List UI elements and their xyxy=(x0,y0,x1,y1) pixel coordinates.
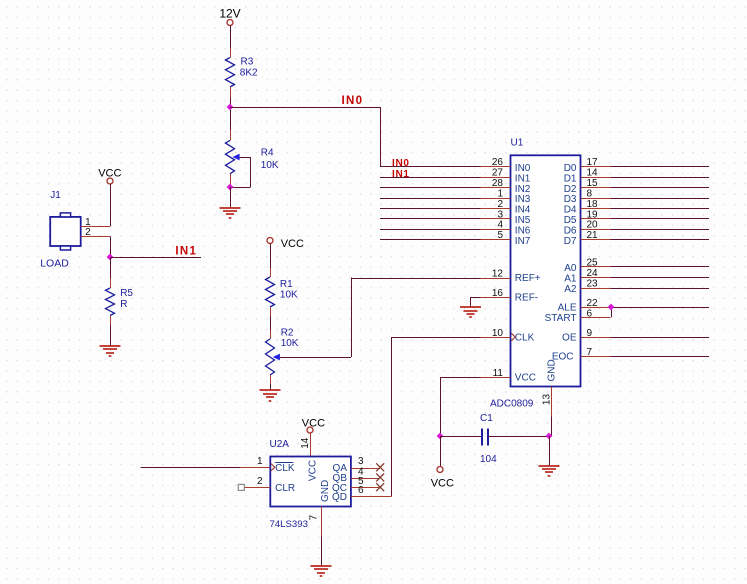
wire VCC to J1 pin1 xyxy=(110,184,112,226)
svg-text:IN1: IN1 xyxy=(515,173,531,184)
label U1 xyxy=(511,138,524,149)
pin number 14 U2A xyxy=(300,437,311,449)
pin 23 A2 of U1 xyxy=(581,288,710,290)
pin 12 REF+ of U1 xyxy=(481,278,511,280)
pin name VCC U1 xyxy=(515,373,536,384)
pin number 4 U2A xyxy=(358,466,364,477)
svg-text:25: 25 xyxy=(587,257,599,268)
svg-text:16: 16 xyxy=(492,288,504,299)
value 10K R2 xyxy=(281,338,299,349)
power port VCC at U2A xyxy=(302,417,325,433)
pin 17 D0 of U1 xyxy=(581,166,710,168)
pin 14 D1 of U1 xyxy=(581,177,710,179)
wire START to ALE xyxy=(611,307,613,317)
pin 7 GND of U2A xyxy=(321,507,323,567)
pin name IN5 U1 xyxy=(515,215,531,226)
svg-text:18: 18 xyxy=(587,199,599,210)
pin 16 REF- of U1 xyxy=(471,297,511,299)
svg-text:GND: GND xyxy=(547,359,558,381)
pin number 5 U2A xyxy=(358,476,364,487)
svg-text:IN6: IN6 xyxy=(515,226,531,237)
pin name D3 U1 xyxy=(564,194,577,205)
no-connect X at QC xyxy=(376,483,384,491)
pin 5 QC of U2A xyxy=(351,487,379,489)
ground below R5 xyxy=(100,346,121,356)
wire 12V to R3 xyxy=(230,26,232,49)
pin name CLK U1 xyxy=(515,333,535,344)
pin number 10 U1 xyxy=(492,328,504,339)
svg-text:D0: D0 xyxy=(564,163,577,174)
pin 2 CLR of U2A xyxy=(238,484,270,490)
pin name QA U2A xyxy=(333,463,348,474)
pin number 17 U1 xyxy=(587,157,599,168)
svg-text:VCC: VCC xyxy=(307,460,318,481)
svg-text:IN3: IN3 xyxy=(515,194,531,205)
svg-text:VCC: VCC xyxy=(281,238,304,250)
pin name VCC U2A rotated xyxy=(307,460,318,481)
wire R4 wiper xyxy=(230,157,251,188)
pin name D1 U1 xyxy=(564,173,577,184)
resistor R3 xyxy=(226,48,235,98)
pin name QD U2A xyxy=(332,492,347,503)
IC U2A body xyxy=(270,457,351,507)
svg-text:CLK: CLK xyxy=(515,333,535,344)
wire REF- to ground xyxy=(470,297,472,307)
svg-text:7: 7 xyxy=(587,347,593,358)
pin number 25 U1 xyxy=(587,257,599,268)
pin 20 D6 of U1 xyxy=(581,229,710,231)
wire VCC to R1 xyxy=(270,244,272,278)
svg-text:24: 24 xyxy=(587,268,599,279)
svg-text:D3: D3 xyxy=(564,194,577,205)
svg-text:D4: D4 xyxy=(564,205,577,216)
ground at REF- xyxy=(460,307,481,317)
pin 11 VCC of U1 xyxy=(440,377,511,379)
svg-text:R3: R3 xyxy=(241,57,254,68)
pin name CLK U2A xyxy=(275,463,295,474)
pin 1 of J1 xyxy=(81,226,110,228)
junction R3-IN0 xyxy=(227,104,234,111)
label R1 xyxy=(280,279,293,290)
pin 6 START of U1 xyxy=(581,317,611,319)
pin number 26 U1 xyxy=(492,157,504,168)
pin name QB U2A xyxy=(333,473,348,484)
svg-text:U2A: U2A xyxy=(270,439,290,450)
svg-text:104: 104 xyxy=(480,454,497,465)
label J1 xyxy=(50,190,61,201)
pin number 22 U1 xyxy=(587,298,599,309)
svg-text:5: 5 xyxy=(497,230,503,241)
wire R2 to ground xyxy=(270,375,272,391)
svg-text:START: START xyxy=(545,313,577,324)
ground below U2A xyxy=(311,566,332,576)
pin number 27 U1 xyxy=(492,168,504,179)
wire R4 to ground xyxy=(230,187,232,208)
pin number 19 U1 xyxy=(587,209,599,220)
connector J1 xyxy=(50,213,80,250)
pin name IN1 U1 xyxy=(515,173,531,184)
svg-text:10K: 10K xyxy=(281,338,299,349)
svg-text:12: 12 xyxy=(492,269,504,280)
value 10K R1 xyxy=(280,290,298,301)
ground below R2 xyxy=(260,390,281,401)
pin number 20 U1 xyxy=(587,220,599,231)
pin number 23 U1 xyxy=(587,278,599,289)
pin number 2 J1 xyxy=(85,227,91,238)
svg-text:12V: 12V xyxy=(219,7,240,21)
pin number 15 U1 xyxy=(587,178,599,189)
svg-text:A1: A1 xyxy=(564,274,577,285)
svg-text:D6: D6 xyxy=(564,226,577,237)
pin name IN2 U1 xyxy=(515,184,531,195)
svg-text:C1: C1 xyxy=(480,413,493,424)
wire net IN0 xyxy=(230,107,481,167)
pin 5 IN7 of U1 xyxy=(380,239,511,241)
pin number 9 U1 xyxy=(587,328,593,339)
svg-text:7: 7 xyxy=(309,514,320,520)
pin 7 EOC of U1 xyxy=(581,356,710,358)
svg-text:REF-: REF- xyxy=(515,293,538,304)
wire C1 right to GND pin xyxy=(488,436,549,438)
pin 28 IN2 of U1 xyxy=(380,187,511,189)
potentiometer R4 xyxy=(226,140,240,187)
junction IN1 node xyxy=(107,254,114,261)
svg-text:OE: OE xyxy=(562,333,577,344)
pin number 3 U2A xyxy=(358,456,364,467)
svg-text:D7: D7 xyxy=(564,236,577,247)
pin 15 D2 of U1 xyxy=(581,187,710,189)
pin name QC U2A xyxy=(332,483,347,494)
pin name START U1 xyxy=(545,313,577,324)
pin 19 D5 of U1 xyxy=(581,218,710,220)
svg-text:R1: R1 xyxy=(280,279,293,290)
svg-text:D1: D1 xyxy=(564,173,577,184)
svg-text:6: 6 xyxy=(587,308,593,319)
svg-text:10K: 10K xyxy=(280,290,298,301)
power port VCC at R1 xyxy=(267,238,304,251)
svg-text:CLK: CLK xyxy=(275,463,295,474)
pin 14 VCC of U2A xyxy=(310,433,312,457)
pin 26 IN0 of U1 xyxy=(380,166,511,168)
svg-text:A2: A2 xyxy=(564,284,577,295)
pin number 2 U1 xyxy=(497,199,503,210)
pin 2 IN4 of U1 xyxy=(380,208,511,210)
svg-text:IN0: IN0 xyxy=(342,95,364,107)
label C1 xyxy=(480,413,493,424)
pin 8 D3 of U1 xyxy=(581,198,710,200)
pin 9 OE of U1 xyxy=(581,337,710,339)
svg-text:8: 8 xyxy=(587,188,593,199)
svg-text:IN7: IN7 xyxy=(515,236,531,247)
pin name GND U1 xyxy=(547,359,558,381)
svg-text:IN1: IN1 xyxy=(392,169,410,180)
pin number 11 U1 xyxy=(493,368,504,379)
svg-text:CLR: CLR xyxy=(275,483,295,494)
junction R4 bottom xyxy=(227,184,234,191)
pin 22 ALE of U1 xyxy=(581,307,710,309)
pin number 1 U1 xyxy=(497,188,503,199)
pin name EOC U1 xyxy=(552,352,574,363)
pin number 6 U1 xyxy=(587,308,593,319)
pin number 7 U2A xyxy=(309,514,320,520)
pin number 1 J1 xyxy=(85,217,91,228)
svg-text:D5: D5 xyxy=(564,215,577,226)
wire U1 VCC down xyxy=(440,377,442,436)
pin number 13 U1 xyxy=(541,394,552,406)
pin name IN7 U1 xyxy=(515,236,531,247)
svg-text:9: 9 xyxy=(587,328,593,339)
svg-text:1: 1 xyxy=(257,456,263,467)
no-connect X at QA xyxy=(376,463,384,471)
svg-text:IN2: IN2 xyxy=(515,184,531,195)
pin name A0 U1 xyxy=(564,263,577,274)
pin 6 QD of U2A xyxy=(351,496,391,498)
net label IN1 xyxy=(175,246,197,258)
svg-text:ADC0809: ADC0809 xyxy=(490,399,534,410)
svg-text:IN4: IN4 xyxy=(515,205,531,216)
pin name D7 U1 xyxy=(564,236,577,247)
svg-text:13: 13 xyxy=(541,394,552,406)
svg-text:U1: U1 xyxy=(511,138,524,149)
wire to R5 xyxy=(110,257,112,288)
svg-text:VCC: VCC xyxy=(302,417,325,429)
svg-text:REF+: REF+ xyxy=(515,273,541,284)
svg-text:QD: QD xyxy=(332,492,347,503)
pin number 5 U1 xyxy=(497,230,503,241)
pin name GND U2A rotated xyxy=(320,480,331,502)
ground below C1 xyxy=(539,466,560,476)
pin 10 CLK of U1 xyxy=(481,333,516,341)
power port 12V xyxy=(219,7,240,26)
value 10K R4 xyxy=(261,160,279,171)
svg-text:4: 4 xyxy=(497,220,503,231)
svg-text:74LS393: 74LS393 xyxy=(270,519,308,530)
wire J1 pin2 down xyxy=(110,237,112,258)
pin 24 A1 of U1 xyxy=(581,277,710,279)
svg-text:21: 21 xyxy=(587,230,599,241)
junction C1-GND13 xyxy=(546,433,553,440)
svg-text:D2: D2 xyxy=(564,184,577,195)
pin name D0 U1 xyxy=(564,163,577,174)
pin number 12 U1 xyxy=(492,269,504,280)
pin number 3 U1 xyxy=(497,209,503,220)
IC U1 body xyxy=(511,155,581,386)
net label IN1 at U1 xyxy=(392,169,410,180)
pin number 28 U1 xyxy=(492,178,504,189)
value R xyxy=(120,299,127,310)
pin name ALE U1 xyxy=(558,303,577,314)
pin 4 QB of U2A xyxy=(351,478,379,480)
svg-text:VCC: VCC xyxy=(515,373,536,384)
pin name IN4 U1 xyxy=(515,205,531,216)
pin number 6 U2A xyxy=(358,485,364,496)
pin number 1 U2A xyxy=(257,456,263,467)
svg-text:R5: R5 xyxy=(120,288,133,299)
pin 3 IN5 of U1 xyxy=(380,218,511,220)
pin name IN0 U1 xyxy=(515,163,531,174)
pin name D4 U1 xyxy=(564,205,577,216)
capacitor C1 xyxy=(482,429,488,446)
svg-text:6: 6 xyxy=(358,485,364,496)
pin name REF+ U1 xyxy=(515,273,541,284)
label R3 xyxy=(241,57,254,68)
svg-text:19: 19 xyxy=(587,209,599,220)
svg-text:J1: J1 xyxy=(50,190,61,201)
wire R3 to R4 xyxy=(230,98,232,140)
pin number 2 U2A xyxy=(257,476,263,487)
svg-text:2: 2 xyxy=(257,476,263,487)
svg-text:A0: A0 xyxy=(564,263,577,274)
no-connect X at QB xyxy=(376,473,384,481)
pin name A2 U1 xyxy=(564,284,577,295)
wire net IN1 xyxy=(110,257,201,259)
svg-text:23: 23 xyxy=(587,278,599,289)
value 8K2 xyxy=(240,68,258,79)
ground below R4 xyxy=(220,208,241,218)
svg-text:17: 17 xyxy=(587,157,599,168)
svg-text:10: 10 xyxy=(492,328,504,339)
pin name D2 U1 xyxy=(564,184,577,195)
value LOAD xyxy=(40,258,69,270)
svg-text:R4: R4 xyxy=(261,148,274,159)
pin 18 D4 of U1 xyxy=(581,208,710,210)
svg-text:20: 20 xyxy=(587,220,599,231)
pin name CLR U2A xyxy=(275,483,295,494)
svg-text:3: 3 xyxy=(497,209,503,220)
resistor R5 xyxy=(106,288,115,326)
pin number 4 U1 xyxy=(497,220,503,231)
pin number 14 U1 xyxy=(587,168,599,179)
svg-text:R: R xyxy=(120,299,127,310)
svg-text:1: 1 xyxy=(497,188,503,199)
svg-text:8K2: 8K2 xyxy=(240,68,258,79)
power port VCC at J1 xyxy=(98,168,121,185)
pin number 7 U1 xyxy=(587,347,593,358)
svg-text:10K: 10K xyxy=(261,160,279,171)
potentiometer R2 xyxy=(266,339,280,375)
pin 27 IN1 of U1 xyxy=(380,177,511,179)
pin name D6 U1 xyxy=(564,226,577,237)
wire R2 wiper to REF+ xyxy=(280,278,481,358)
svg-text:27: 27 xyxy=(492,168,504,179)
pin 1 IN3 of U1 xyxy=(380,198,511,200)
junction VCC-C1 xyxy=(437,433,444,440)
label R5 xyxy=(120,288,133,299)
pin name D5 U1 xyxy=(564,215,577,226)
svg-text:15: 15 xyxy=(587,178,599,189)
wire R5 to ground xyxy=(110,326,112,346)
resistor R1 xyxy=(266,277,275,307)
svg-text:R2: R2 xyxy=(281,327,294,338)
pin 25 A0 of U1 xyxy=(581,266,710,268)
label R4 xyxy=(261,148,274,159)
pin name IN3 U1 xyxy=(515,194,531,205)
svg-text:LOAD: LOAD xyxy=(40,258,69,270)
svg-text:GND: GND xyxy=(320,480,331,502)
pin 3 QA of U2A xyxy=(351,468,379,470)
wire junction to ground xyxy=(549,436,551,466)
wire R1 to R2 xyxy=(270,307,272,339)
svg-text:IN1: IN1 xyxy=(175,246,197,258)
pin number 21 U1 xyxy=(587,230,599,241)
junction ALE-START xyxy=(608,304,615,311)
pin name A1 U1 xyxy=(564,274,577,285)
pin name IN6 U1 xyxy=(515,226,531,237)
svg-text:11: 11 xyxy=(493,368,504,379)
value 74LS393 xyxy=(270,519,308,530)
pin name OE U1 xyxy=(562,333,577,344)
svg-text:IN0: IN0 xyxy=(515,163,531,174)
label U2A xyxy=(270,439,290,450)
pin number 8 U1 xyxy=(587,188,593,199)
net label IN0 xyxy=(342,95,364,107)
svg-text:IN5: IN5 xyxy=(515,215,531,226)
svg-text:2: 2 xyxy=(497,199,503,210)
pin number 24 U1 xyxy=(587,268,599,279)
pin 4 IN6 of U1 xyxy=(380,229,511,231)
wire QD to U1 CLK xyxy=(391,337,480,497)
value 104 xyxy=(480,454,497,465)
wire junction to VCC port xyxy=(440,436,442,467)
pin 13 GND of U1 xyxy=(551,387,553,437)
svg-text:26: 26 xyxy=(492,157,504,168)
pin 2 of J1 xyxy=(81,236,110,238)
net label IN0 at U1 xyxy=(392,158,410,169)
svg-text:IN0: IN0 xyxy=(392,158,410,169)
pin name REF- U1 xyxy=(515,293,538,304)
svg-text:14: 14 xyxy=(300,437,311,449)
svg-text:28: 28 xyxy=(492,178,504,189)
label R2 xyxy=(281,327,294,338)
wire to C1 left xyxy=(440,436,481,438)
svg-text:VCC: VCC xyxy=(431,478,454,490)
svg-text:2: 2 xyxy=(85,227,91,238)
power port VCC at C1 xyxy=(431,467,454,490)
pin number 18 U1 xyxy=(587,199,599,210)
svg-text:14: 14 xyxy=(587,168,599,179)
value ADC0809 xyxy=(490,399,534,410)
pin 21 D7 of U1 xyxy=(581,239,710,241)
pin number 16 U1 xyxy=(492,288,504,299)
pin 1 CLK of U2A xyxy=(141,464,275,471)
